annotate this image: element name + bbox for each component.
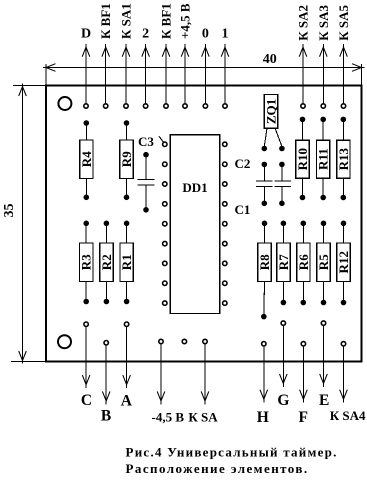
op-amp / IC DD1 body [170,135,220,314]
node +4,5 V: wire and pad [181,44,189,108]
svg-text:К SA1: К SA1 [119,3,134,39]
resistor R7 [276,221,291,305]
svg-text:R7: R7 [276,254,291,270]
svg-text:ZQ1: ZQ1 [264,99,279,124]
svg-text:R2: R2 [99,254,114,270]
resistor R13 [336,117,351,200]
svg-text:R9: R9 [119,151,134,167]
svg-text:К SA2: К SA2 [296,5,311,41]
resistor R2 [99,221,114,304]
node D: wire and pad [82,44,90,108]
node K BF1: wire and pad [102,44,110,108]
svg-text:35: 35 [2,204,17,218]
node K SA4: pad and arrow [340,342,348,403]
mounting hole bottom-left [58,335,71,348]
node K SA2: wire and pad [299,44,307,108]
svg-text:E: E [319,392,329,409]
resistor R3 [79,221,94,304]
svg-text:1: 1 [222,27,229,42]
svg-text:A: A [121,392,133,409]
resistor R11 [316,117,331,200]
spare pad (no connection) [182,339,186,343]
svg-text:К BF1: К BF1 [159,3,174,39]
svg-text:R3: R3 [79,254,94,270]
svg-text:R11: R11 [316,148,331,170]
node -4,5 V: pad and arrow [157,339,165,404]
svg-text:0: 0 [202,27,209,42]
resistor R4 [79,121,94,200]
svg-text:К BF1: К BF1 [98,3,113,39]
capacitor C3 [138,134,155,212]
svg-text:R4: R4 [79,151,94,167]
resistor R5 [316,221,331,305]
svg-text:H: H [257,409,269,426]
svg-text:R8: R8 [257,254,272,270]
svg-text:C3: C3 [138,134,154,149]
node C: pad and arrow [82,322,90,388]
node A: pad and arrow [123,322,131,388]
crystal ZQ1 [262,95,284,151]
node 0: wire and pad [202,44,210,108]
svg-text:-4,5 В: -4,5 В [152,410,185,425]
DD1 left pin pads [163,142,167,305]
svg-text:К SA5: К SA5 [336,5,351,41]
resistor R6 [296,221,311,305]
resistor R12 [336,221,351,305]
board outline [46,86,362,362]
svg-text:R5: R5 [316,254,331,270]
node B: pad and arrow [102,341,110,405]
svg-text:2: 2 [142,27,149,42]
resistor R10 [295,117,310,200]
node K BF1: wire and pad [162,44,170,108]
node K SA1: wire and pad [122,44,130,108]
svg-text:40: 40 [263,52,277,67]
resistor R1 [119,221,134,304]
svg-text:C: C [81,392,92,409]
node F: pad and arrow [300,342,308,403]
svg-text:К SA3: К SA3 [316,5,331,41]
mounting hole top-left [58,97,71,110]
dimension line 40 (top) [43,52,365,85]
svg-text:F: F [298,409,307,426]
resistor R8 (slanted bottom lead) [257,221,272,319]
node E: pad and arrow [320,321,328,387]
svg-text:Расположение элементов.: Расположение элементов. [126,461,309,476]
node 2: wire and pad [142,44,150,108]
resistor R9 [119,121,134,200]
svg-text:C2: C2 [235,156,251,171]
node H: pad and arrow [260,342,268,403]
svg-text:R6: R6 [296,254,311,270]
capacitor C2 (left of pair) [256,162,272,206]
svg-text:R10: R10 [295,148,310,170]
svg-text:R1: R1 [119,254,134,270]
node K SA: pad and arrow [201,339,209,404]
node K SA3: wire and pad [320,44,328,108]
node 1: wire and pad [221,44,229,108]
svg-text:К SA4: К SA4 [330,408,366,423]
svg-text:К SA: К SA [188,410,218,425]
DD1 right pin pads [223,142,227,305]
svg-text:B: B [101,408,111,425]
svg-text:D: D [81,27,91,42]
dimension line 35 (left) [2,84,45,364]
DD1 pin-1 key mark [159,136,164,142]
node K SA5: wire and pad [340,44,348,108]
svg-text:DD1: DD1 [182,180,207,195]
node G: pad and arrow [280,321,288,387]
capacitor C1 (right of pair) [275,162,291,206]
svg-text:+4,5 В: +4,5 В [178,3,193,39]
svg-text:R13: R13 [336,148,351,171]
svg-text:C1: C1 [235,202,251,217]
svg-text:G: G [277,392,289,409]
svg-text:R12: R12 [336,251,351,273]
svg-text:Рис.4 Универсальный таймер.: Рис.4 Универсальный таймер. [126,445,338,460]
